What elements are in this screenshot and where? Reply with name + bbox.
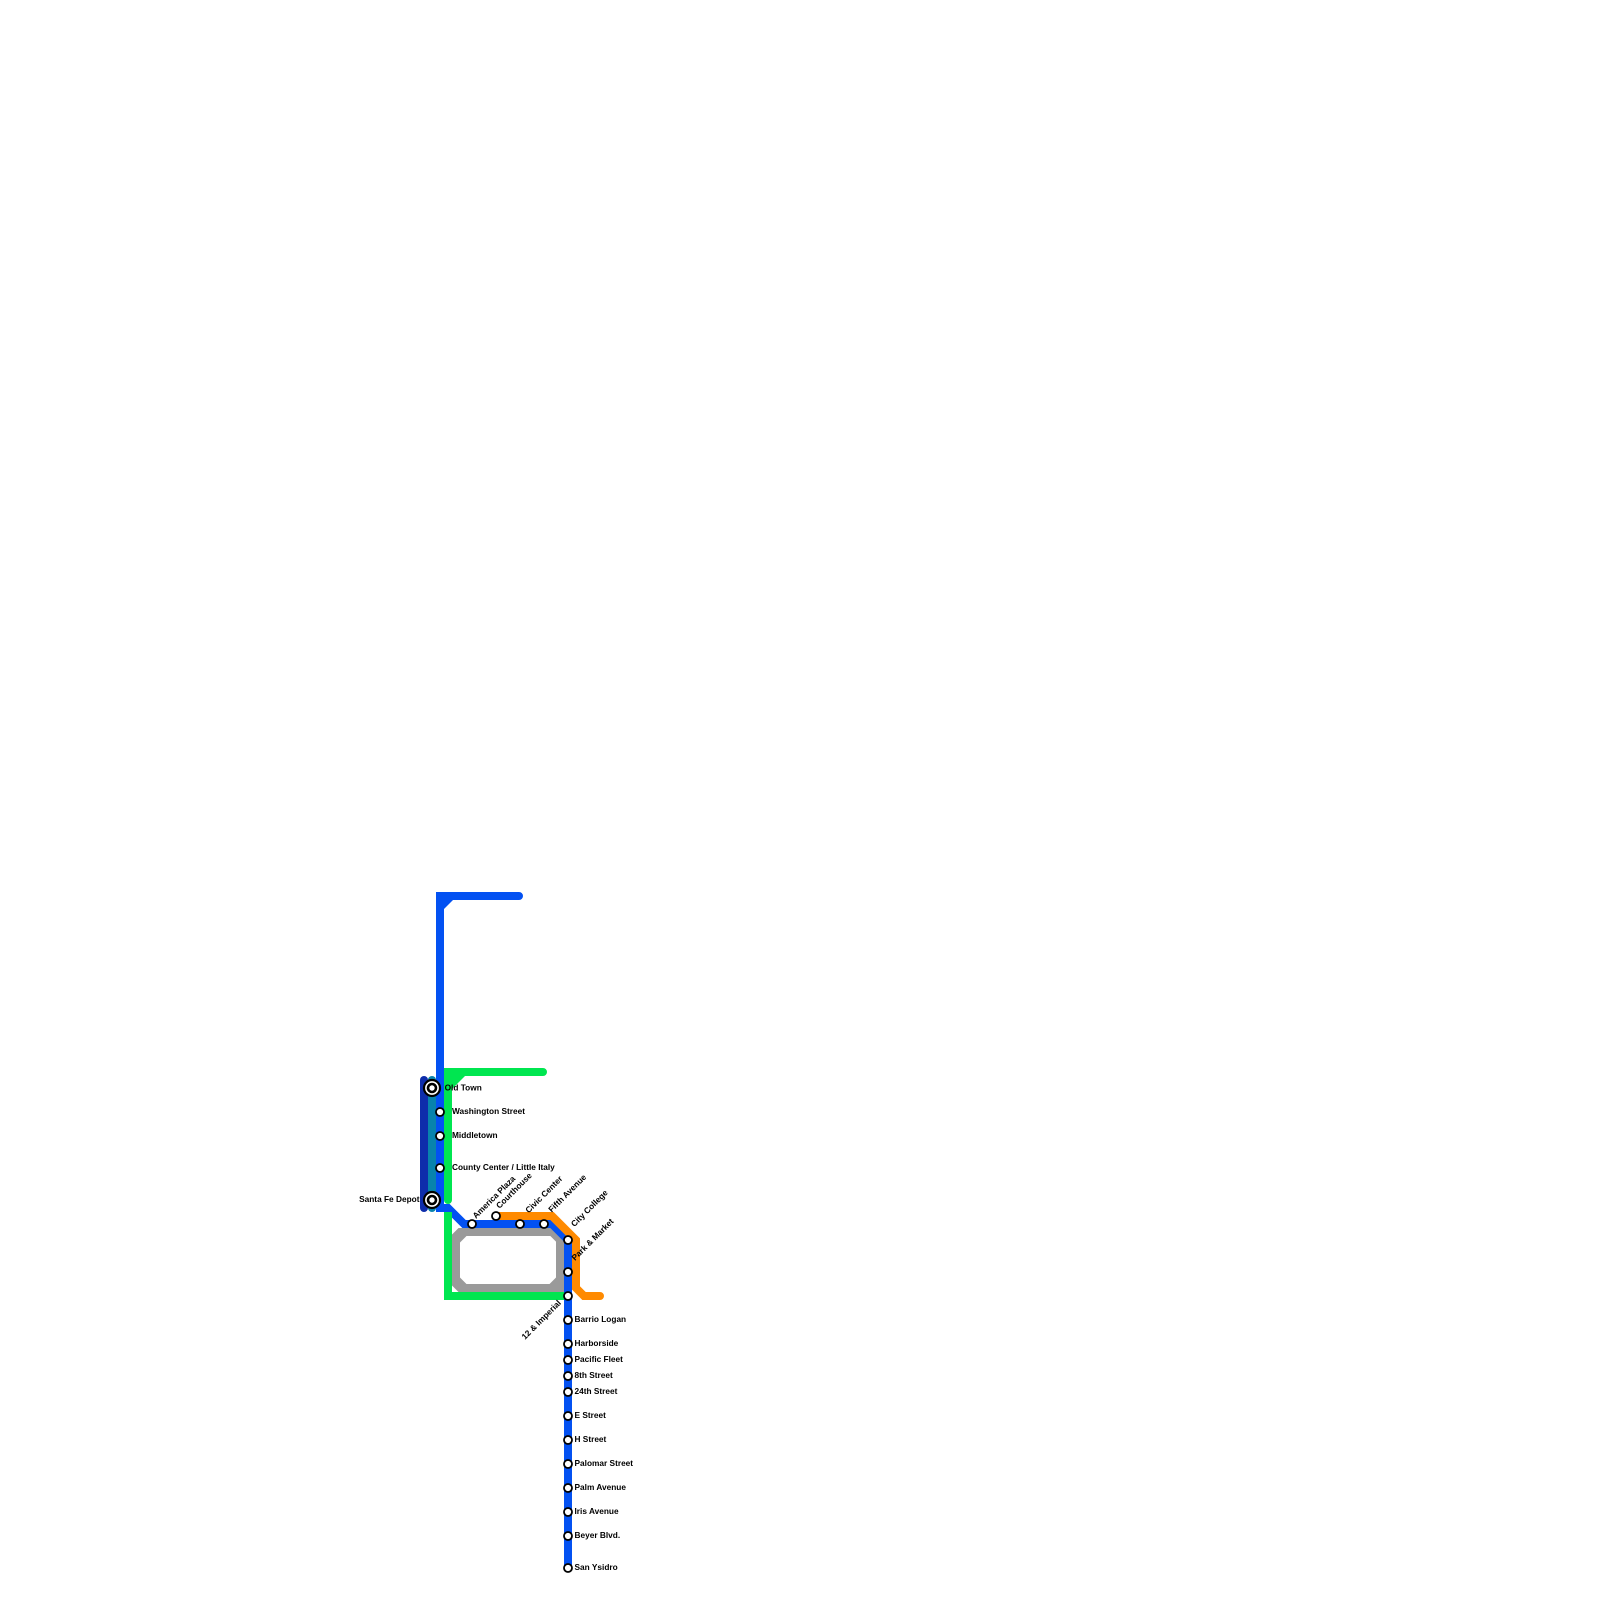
station 24th Street	[564, 1388, 572, 1396]
station County Center / Little Italy	[436, 1164, 444, 1172]
station Beyer Blvd.	[564, 1532, 572, 1540]
station City College	[564, 1236, 572, 1244]
svg-text:Santa Fe Depot: Santa Fe Depot	[359, 1194, 420, 1204]
gray downtown loop	[452, 1228, 564, 1292]
station E Street	[564, 1412, 572, 1420]
station Iris Avenue	[564, 1508, 572, 1516]
svg-text:E Street: E Street	[575, 1410, 607, 1420]
svg-text:Pacific Fleet: Pacific Fleet	[575, 1354, 624, 1364]
svg-text:24th Street: 24th Street	[575, 1386, 618, 1396]
blue line	[440, 896, 568, 1568]
station Middletown	[436, 1132, 444, 1140]
interchange station Santa Fe Depot	[424, 1192, 440, 1208]
station Civic Center	[516, 1220, 524, 1228]
station Courthouse	[492, 1212, 500, 1220]
teal line (Amtrak)	[428, 1080, 436, 1208]
station 12 &amp; Imperial	[564, 1292, 572, 1300]
navy line (Coaster)	[420, 1080, 428, 1208]
station Fifth Avenue	[540, 1220, 548, 1228]
station Harborside	[564, 1340, 572, 1348]
green line upper segment	[448, 1072, 543, 1200]
station America Plaza	[468, 1220, 476, 1228]
station Palomar Street	[564, 1460, 572, 1468]
svg-text:Washington Street: Washington Street	[452, 1106, 525, 1116]
svg-text:Middletown: Middletown	[452, 1130, 498, 1140]
svg-text:Iris Avenue: Iris Avenue	[575, 1506, 619, 1516]
blue line corner fillet	[444, 900, 453, 909]
svg-text:San Ysidro: San Ysidro	[575, 1562, 618, 1572]
station Washington Street	[436, 1108, 444, 1116]
svg-text:Harborside: Harborside	[575, 1338, 619, 1348]
interchange station Old Town	[424, 1080, 440, 1096]
station Barrio Logan	[564, 1316, 572, 1324]
station Pacific Fleet	[564, 1356, 572, 1364]
station Park &amp; Market	[564, 1268, 572, 1276]
svg-text:Palm Avenue: Palm Avenue	[575, 1482, 627, 1492]
svg-text:H Street: H Street	[575, 1434, 607, 1444]
green line corner fillet	[452, 1076, 465, 1089]
svg-text:8th Street: 8th Street	[575, 1370, 614, 1380]
svg-text:Old Town: Old Town	[445, 1082, 482, 1092]
svg-text:Barrio Logan: Barrio Logan	[575, 1314, 627, 1324]
station 8th Street	[564, 1372, 572, 1380]
green line lower segment	[448, 1212, 564, 1296]
svg-text:County Center / Little Italy: County Center / Little Italy	[452, 1162, 555, 1172]
svg-text:Beyer Blvd.: Beyer Blvd.	[575, 1530, 621, 1540]
station San Ysidro	[564, 1564, 572, 1572]
svg-text:Palomar Street: Palomar Street	[575, 1458, 634, 1468]
station H Street	[564, 1436, 572, 1444]
orange line	[496, 1216, 600, 1296]
station Palm Avenue	[564, 1484, 572, 1492]
